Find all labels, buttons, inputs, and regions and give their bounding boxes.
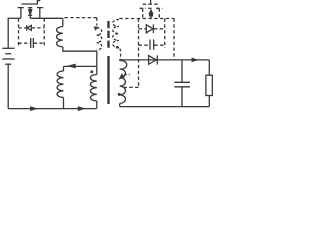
dashed stub winding to output wire <box>119 49 122 60</box>
resistor R1 load <box>206 75 212 95</box>
transistor Q1 gate <box>22 1 41 5</box>
wire W2 bottom <box>63 97 65 108</box>
battery Vin negative lead wire <box>7 64 9 108</box>
dashed rail right of secondary box <box>164 19 166 49</box>
dashed loop bottom horizontal to W4 <box>124 86 139 88</box>
dashed wire under Q2 <box>119 18 174 20</box>
current arrow on bottom rail right pointing right <box>78 107 85 111</box>
transistor Q2 gate dashed <box>143 3 160 5</box>
transistor Q2 source contact dashed <box>156 8 162 18</box>
diode D2 body diode <box>139 25 165 34</box>
winding W1 leakage inductance <box>56 27 62 47</box>
winding W4 secondary <box>120 60 127 103</box>
dashed winding of T1 right <box>113 20 119 48</box>
polarity dot W4 <box>118 93 121 96</box>
dashed rail left of secondary box <box>138 19 140 88</box>
bottom rail secondary side <box>120 106 210 108</box>
dashed loop stub mid <box>124 74 130 76</box>
current arrow on bottom rail left pointing right <box>30 107 37 111</box>
battery Vin positive lead wire <box>7 18 9 48</box>
winding W2 magnetizing inductance <box>57 71 63 97</box>
diode D1 body diode <box>19 25 45 30</box>
capacitor C1 parasitic <box>19 38 45 48</box>
dashed current loop corner down <box>96 18 98 26</box>
wire drain side <box>8 17 21 19</box>
transformer T1 core dashed <box>107 21 109 49</box>
current arrow on wire2 pointing left <box>68 64 76 68</box>
dashed winding of T1 left <box>97 28 102 50</box>
wire W4 bottom <box>119 103 121 106</box>
capacitor C2 parasitic <box>139 40 165 50</box>
loop arrowhead into W4 <box>119 74 125 80</box>
transformer T2 core <box>107 56 109 104</box>
current arrow on output wire pointing right <box>192 58 198 62</box>
capacitor C3 output <box>174 60 190 107</box>
wire W1 bottom to node <box>63 47 97 51</box>
diode D3 output rectifier <box>149 55 158 64</box>
transistor Q2 gate lead dashed <box>150 0 152 4</box>
bottom rail primary side <box>8 108 97 110</box>
wire node down to W3 <box>96 51 98 74</box>
wire 2 horizontal with W2 <box>64 65 97 67</box>
polarity dot dashed winding <box>116 46 119 49</box>
transistor Q1 source contact <box>37 8 43 19</box>
current loop arrowhead pointing down <box>94 27 98 31</box>
transistor Q1 drain contact <box>18 8 24 19</box>
wire to transformer T1 <box>62 18 64 26</box>
transistor Q1 body arrow <box>28 8 32 19</box>
resistor R1 load lead top <box>208 60 210 75</box>
polarity dot W3 <box>90 70 93 73</box>
resistor R1 load lead bottom <box>208 96 210 107</box>
dashed rail right of snubber box <box>43 18 45 45</box>
wire source side <box>30 17 63 19</box>
transistor Q2 drain contact dashed <box>140 8 146 18</box>
dashed rail outer right <box>173 19 175 60</box>
winding W2 magnetizing inductance riser <box>63 66 65 71</box>
transistor Q2 body arrow <box>148 8 154 18</box>
wire W3 bottom <box>96 101 98 109</box>
dashed rail left of snubber box <box>18 18 20 45</box>
winding W3 primary <box>90 75 96 101</box>
dashed current loop top horizontal <box>65 17 97 19</box>
battery Vin <box>2 48 14 64</box>
wire W4 top to output <box>120 59 210 62</box>
